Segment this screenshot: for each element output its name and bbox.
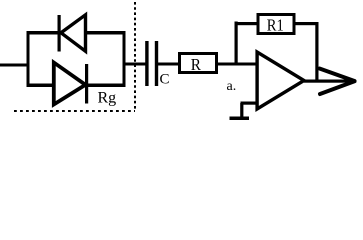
wire box bottom rail left segment — [27, 84, 54, 88]
wire box top rail left segment — [27, 31, 60, 35]
dotted boundary horizontal — [14, 110, 135, 112]
svg-text:C: C — [160, 72, 170, 88]
wire box to capacitor — [124, 63, 146, 66]
wire box left rail — [27, 31, 30, 87]
resistor R1 box — [258, 15, 294, 34]
ground — [230, 103, 250, 120]
wire R1 to right corner — [294, 22, 319, 25]
wire box top rail right segment — [85, 31, 126, 35]
wire output — [304, 80, 353, 83]
wire input lead — [0, 64, 29, 67]
wire R to op-amp inverting input — [218, 63, 258, 66]
wire capacitor to R — [158, 63, 179, 66]
dotted boundary vertical — [134, 2, 136, 110]
diode D1 top (pointing left) — [58, 15, 86, 52]
output arrow head — [320, 69, 355, 95]
wire feedback top-left horizontal — [235, 22, 259, 25]
op-amp U1 triangle — [257, 52, 304, 109]
wire feedback right vertical — [315, 22, 318, 82]
wire feedback left vertical — [235, 22, 238, 66]
wire box bottom rail right segment — [87, 84, 126, 88]
diode D2 bottom (pointing right) — [54, 63, 88, 105]
capacitor C plates — [145, 41, 148, 86]
resistor R box — [180, 54, 217, 73]
svg-text:Rg: Rg — [98, 90, 117, 107]
wire box right rail — [123, 31, 126, 87]
svg-text:a.: a. — [227, 79, 237, 94]
svg-text:R: R — [191, 55, 202, 74]
wire non-inverting input — [241, 102, 259, 105]
svg-text:R1: R1 — [267, 16, 284, 35]
